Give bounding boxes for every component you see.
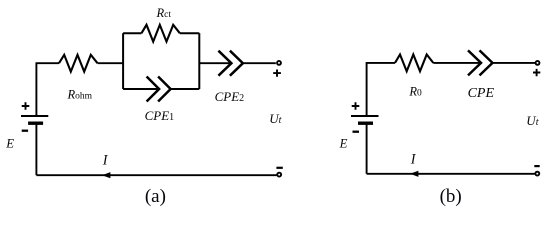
label E (a) <box>5 136 14 150</box>
wire: Rohm to parallel block <box>98 62 124 64</box>
resistor R0 (zigzag) <box>395 55 433 72</box>
label E (b) <box>339 136 348 150</box>
battery E (b): short negative plate <box>358 121 373 124</box>
resistor Rct (zigzag, top branch) <box>142 25 180 42</box>
label - (battery a) <box>22 130 28 132</box>
svg-text:E: E <box>339 136 348 150</box>
svg-text:CPE1: CPE1 <box>145 108 175 123</box>
svg-text:(b): (b) <box>440 186 462 207</box>
label + (output terminal a) <box>273 70 281 77</box>
svg-text:(a): (a) <box>145 186 166 207</box>
current arrow I (b) <box>410 171 418 177</box>
label - (battery b) <box>353 131 360 133</box>
wire: top branch left lead <box>123 32 141 34</box>
label I (a) <box>102 153 109 169</box>
label CPE1 <box>145 108 175 123</box>
label + (output terminal b) <box>533 69 540 76</box>
battery E (a): short negative plate <box>28 121 43 124</box>
current arrow I (a) <box>102 172 110 178</box>
CPE (double chevron, series, circuit b) <box>468 50 493 75</box>
CPE2 (double chevron, series) <box>218 51 243 76</box>
label + (battery a) <box>22 102 30 110</box>
wire: parallel block to CPE2 <box>199 62 231 64</box>
wire: bottom branch left lead <box>123 88 159 90</box>
wire: CPE2 to positive output terminal <box>243 62 276 64</box>
label - (output terminal b) <box>534 165 539 167</box>
label Ut (b) <box>526 113 538 128</box>
label CPE2 <box>215 89 245 104</box>
label - (output terminal a) <box>276 167 282 169</box>
svg-text:R0: R0 <box>408 85 422 99</box>
svg-text:Ut: Ut <box>526 113 538 128</box>
node: negative output terminal (a) <box>277 173 281 177</box>
wire: battery negative lead down <box>35 123 37 175</box>
svg-text:E: E <box>5 136 14 150</box>
CPE1 (double chevron, bottom branch) <box>147 77 171 102</box>
svg-text:I: I <box>102 153 109 169</box>
wire: battery positive lead up and top-left horizontal to Rohm <box>36 63 59 116</box>
label (a) <box>145 186 166 207</box>
battery E (a): long positive plate <box>21 115 48 117</box>
svg-text:I: I <box>410 151 417 167</box>
wire: CPE to positive output terminal (b) <box>493 62 536 64</box>
resistor Rohm (zigzag) <box>59 55 98 72</box>
label Ut (a) <box>269 111 281 126</box>
svg-text:CPE2: CPE2 <box>215 89 245 104</box>
wire: battery positive lead up and top horizontal to R0 <box>367 63 395 116</box>
label Rct <box>156 6 172 20</box>
wire: bottom rail (a) <box>36 174 276 176</box>
wire: battery negative lead down (b) <box>366 123 368 174</box>
svg-text:CPE: CPE <box>468 86 495 101</box>
node: positive output terminal (b) <box>536 61 540 65</box>
node: negative output terminal (b) <box>535 172 539 176</box>
svg-text:Rct: Rct <box>156 6 172 20</box>
wire: R0 to CPE <box>433 62 481 64</box>
node: positive output terminal (a) <box>277 61 281 65</box>
wire: top branch right lead <box>180 32 200 34</box>
label + (battery b) <box>352 102 360 110</box>
wire: parallel block right vertical <box>198 33 200 89</box>
wire: bottom rail (b) <box>367 173 535 175</box>
label Rohm <box>67 88 93 102</box>
svg-text:Ut: Ut <box>269 111 281 126</box>
label (b) <box>440 186 462 207</box>
battery E (b): long positive plate <box>351 115 379 117</box>
wire: parallel block left vertical <box>122 33 124 89</box>
label I (b) <box>410 151 417 167</box>
wire: bottom branch right lead <box>171 88 200 90</box>
label CPE (b) <box>468 86 495 101</box>
svg-text:Rohm: Rohm <box>67 88 93 102</box>
label R0 <box>408 85 422 99</box>
